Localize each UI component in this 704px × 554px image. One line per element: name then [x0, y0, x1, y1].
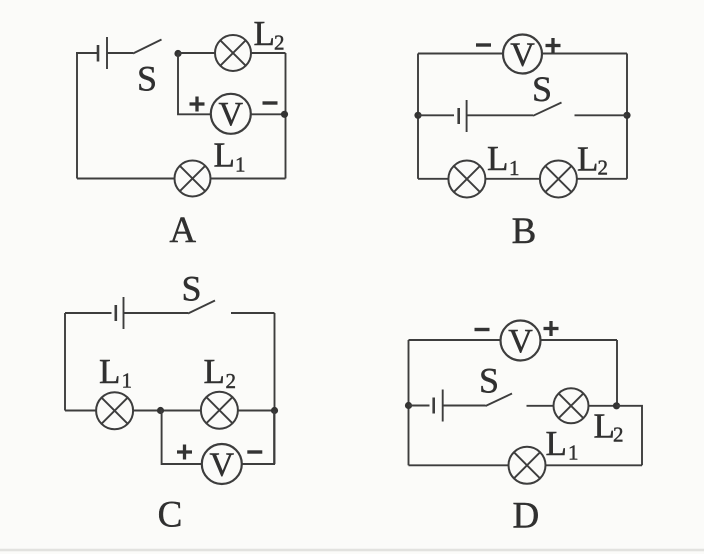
wire B left side: [417, 54, 419, 179]
svg-text:1: 1: [509, 156, 520, 180]
svg-text:L: L: [254, 14, 275, 53]
svg-text:2: 2: [613, 423, 624, 447]
svg-text:L: L: [487, 139, 508, 178]
lamp L2 (D): [554, 388, 589, 423]
svg-text:2: 2: [598, 156, 609, 180]
wire D node to right corner: [617, 406, 643, 466]
wire C voltmeter branch: [161, 411, 275, 465]
voltmeter V (D): [501, 321, 541, 361]
svg-text:V: V: [508, 323, 533, 360]
svg-text:S: S: [479, 361, 499, 401]
lamp L1 (C): [96, 392, 133, 429]
node D1 junction: [405, 402, 412, 409]
svg-text:L: L: [214, 136, 235, 175]
faint scan line at bottom: [0, 549, 704, 552]
battery D: [434, 390, 443, 422]
label L2 (A): [254, 14, 285, 55]
wire A voltmeter branch: [178, 54, 285, 115]
battery C: [116, 297, 124, 329]
wire D top-right segment: [541, 339, 618, 341]
svg-text:D: D: [513, 496, 540, 537]
switch S blade A: [133, 40, 162, 54]
svg-text:A: A: [169, 210, 196, 251]
lamp L2 (C): [201, 392, 238, 429]
node A1 junction: [174, 50, 181, 57]
wire A node to lamp L2 and corner: [178, 52, 286, 54]
node C2 junction: [271, 407, 278, 414]
voltmeter V (C): [202, 444, 242, 484]
lamp L1 (A): [175, 161, 211, 197]
wire A bottom: [77, 178, 286, 180]
wire D right side upper: [616, 340, 618, 406]
wire B top-left segment: [418, 53, 503, 55]
wire B switch fixed contact: [575, 114, 628, 116]
lamp L2 (A): [215, 35, 251, 71]
label L2 (C): [204, 352, 237, 393]
svg-text:C: C: [158, 495, 183, 536]
lamp L1 (B): [448, 161, 485, 198]
label L1 (D): [546, 424, 579, 465]
wire C battery to switch pivot: [124, 312, 189, 314]
voltmeter V (A): [211, 94, 251, 134]
lamp L2 (B): [540, 161, 577, 198]
wire D bottom: [409, 464, 643, 466]
wire B right side: [626, 54, 628, 179]
voltmeter V (B): [503, 35, 542, 74]
svg-text:2: 2: [226, 369, 237, 393]
label L1 (A): [214, 136, 246, 177]
node B2 junction: [623, 112, 630, 119]
plus sign (B): [546, 38, 561, 53]
minus sign (A): [263, 101, 278, 104]
label L1 (B): [487, 139, 520, 180]
svg-text:1: 1: [568, 441, 579, 465]
svg-text:B: B: [512, 211, 537, 252]
wire B bottom: [418, 178, 627, 180]
svg-text:L: L: [594, 407, 615, 446]
plus sign (A): [190, 97, 205, 112]
battery A: [98, 37, 107, 69]
wire C left side: [64, 313, 66, 411]
plus sign (C): [177, 445, 192, 460]
minus sign (D): [475, 328, 490, 331]
node D2 junction: [613, 402, 620, 409]
wire C middle row: [65, 410, 275, 412]
wire C top-left to battery: [65, 312, 112, 314]
wire D lamp L2 to node: [589, 405, 617, 407]
wire B top-right segment: [542, 53, 627, 55]
wire D battery to switch pivot: [443, 405, 486, 407]
wire A battery to switch pivot: [107, 52, 133, 54]
svg-text:L: L: [204, 352, 225, 391]
label L1 (C): [99, 352, 132, 393]
wire A top-left to battery: [76, 52, 98, 54]
plus sign (D): [544, 321, 559, 336]
svg-text:S: S: [137, 59, 157, 99]
wire D left side: [408, 340, 410, 465]
minus sign (B): [476, 43, 491, 46]
wire A left side: [76, 53, 78, 179]
wire D middle to battery: [409, 405, 430, 407]
svg-text:1: 1: [122, 369, 133, 393]
svg-text:V: V: [210, 446, 235, 483]
wire B battery to switch pivot: [467, 114, 533, 116]
label L2 (D): [594, 407, 624, 447]
wire B middle to battery: [418, 114, 454, 116]
wire C right side: [274, 313, 276, 464]
battery B: [459, 100, 467, 132]
label L2 (B): [577, 140, 608, 180]
svg-text:1: 1: [235, 153, 246, 177]
svg-text:L: L: [546, 424, 567, 463]
wire D top-left segment: [409, 339, 501, 341]
switch S blade B: [533, 103, 562, 116]
svg-text:L: L: [577, 140, 598, 179]
svg-text:L: L: [99, 352, 120, 391]
switch S blade C: [188, 301, 215, 314]
wire C switch fixed contact: [231, 312, 275, 314]
lamp L1 (D): [509, 447, 546, 484]
node C1 junction: [157, 407, 164, 414]
svg-text:V: V: [510, 36, 535, 73]
svg-text:S: S: [181, 269, 201, 309]
svg-text:S: S: [532, 69, 552, 109]
switch S blade D: [486, 394, 513, 407]
svg-text:V: V: [219, 96, 244, 133]
wire D switch to lamp L2: [527, 405, 554, 407]
node B1 junction: [414, 112, 421, 119]
minus sign (C): [247, 450, 262, 453]
node A2 junction: [281, 111, 288, 118]
wire A right side: [285, 53, 287, 179]
svg-text:2: 2: [274, 31, 285, 55]
